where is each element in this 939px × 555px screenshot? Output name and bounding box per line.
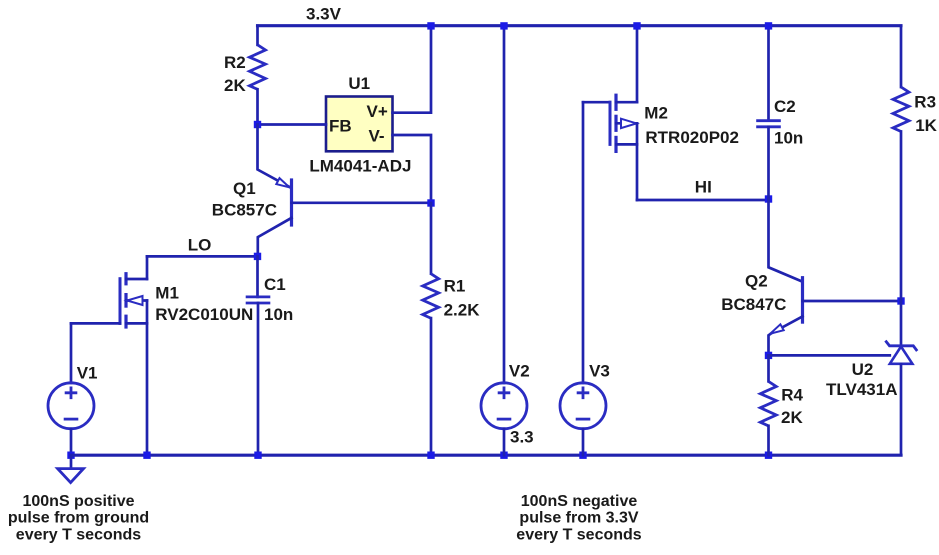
transistor M1 gate bar — [119, 279, 122, 324]
transistor Q2 emitter arrow — [770, 324, 784, 333]
wire V2 top lead — [503, 26, 506, 383]
svg-text:every T seconds: every T seconds — [16, 526, 142, 543]
node HI junction — [765, 195, 772, 202]
node FB junction — [254, 121, 261, 128]
wire C1 bottom lead — [257, 303, 260, 455]
wire R2 bottom lead — [256, 89, 259, 124]
svg-text:C1: C1 — [264, 275, 286, 294]
svg-text:100nS negative: 100nS negative — [521, 493, 638, 510]
svg-text:R3: R3 — [914, 93, 936, 112]
svg-text:R4: R4 — [781, 385, 803, 404]
svg-text:V+: V+ — [367, 102, 388, 121]
voltage source V3 — [560, 383, 606, 429]
voltage source V2 — [481, 383, 527, 429]
wire M1 bulk stub — [126, 299, 147, 302]
svg-text:LO: LO — [188, 236, 212, 255]
svg-text:Q2: Q2 — [745, 272, 768, 291]
svg-text:100nS positive: 100nS positive — [22, 493, 134, 510]
wire V- down to collector node — [393, 135, 432, 203]
svg-text:RTR020P02: RTR020P02 — [645, 128, 739, 147]
wire V1 bottom lead — [70, 429, 73, 456]
transistor Q1 emitter arrow — [276, 178, 289, 187]
svg-text:M2: M2 — [644, 104, 668, 123]
wire Q2 base to R3 node — [803, 300, 902, 303]
svg-text:2K: 2K — [224, 76, 246, 95]
wire V3 to M2 gate — [583, 101, 610, 104]
wire V3 bottom lead — [582, 429, 585, 456]
wire LO net — [147, 255, 258, 258]
wire FB to node — [258, 123, 327, 126]
svg-text:3.3: 3.3 — [510, 427, 534, 446]
wire R1 top lead — [430, 203, 433, 274]
wire Q1 base to R1 node — [292, 201, 432, 204]
wire Q1 emitter lead — [258, 125, 292, 188]
capacitor C1 — [246, 295, 271, 298]
svg-text:C2: C2 — [774, 97, 796, 116]
svg-text:FB: FB — [329, 116, 352, 135]
transistor M1 channel bars — [124, 274, 127, 284]
node rail junction M2 — [633, 22, 640, 29]
node Q2 base / R3 / U2 junction — [897, 297, 904, 304]
wire C2 bottom lead — [767, 127, 770, 199]
svg-text:10n: 10n — [264, 305, 293, 324]
svg-text:Q1: Q1 — [233, 179, 256, 198]
wire M2 bulk stub — [616, 122, 637, 125]
node rail junction at V+ drop — [427, 22, 434, 29]
svg-text:pulse from 3.3V: pulse from 3.3V — [519, 510, 638, 527]
svg-text:R1: R1 — [444, 277, 466, 296]
node V3 junction — [579, 452, 586, 459]
svg-text:pulse from ground: pulse from ground — [8, 510, 149, 527]
svg-text:V3: V3 — [589, 361, 610, 380]
wire Q2 collector lead — [769, 199, 803, 282]
wire C2 top lead — [767, 26, 770, 121]
svg-text:every T seconds: every T seconds — [516, 526, 642, 543]
resistor R2 — [250, 45, 266, 90]
svg-text:HI: HI — [695, 177, 712, 196]
node rail junction V2 — [500, 22, 507, 29]
resistor R1 — [423, 274, 439, 319]
node R1 junction — [427, 452, 434, 459]
svg-text:2.2K: 2.2K — [444, 300, 481, 319]
wire U2 cathode lead — [900, 301, 903, 345]
transistor M2 arrow — [621, 119, 637, 128]
transistor M2 gate bar — [609, 102, 612, 144]
wire M2 source stub — [616, 101, 637, 104]
node V2 junction — [500, 452, 507, 459]
node Q2 emitter junction — [765, 352, 772, 359]
svg-text:3.3V: 3.3V — [306, 5, 342, 24]
svg-text:TLV431A: TLV431A — [826, 380, 898, 399]
wire M2 drain stub — [616, 143, 637, 146]
svg-text:V-: V- — [369, 126, 385, 145]
wire M1 gate lead — [71, 322, 120, 325]
node C1 junction — [254, 452, 261, 459]
resistor R4 — [760, 381, 776, 426]
wire R3 bottom lead — [900, 132, 903, 302]
wire V3 top lead — [582, 102, 585, 383]
wire R4 bottom lead — [767, 426, 770, 455]
node ground junction — [67, 452, 74, 459]
svg-text:V2: V2 — [509, 361, 530, 380]
svg-text:1K: 1K — [915, 116, 937, 135]
svg-text:2K: 2K — [781, 408, 803, 427]
capacitor C2 — [756, 119, 781, 122]
wire C1 top lead — [256, 256, 259, 297]
svg-text:10n: 10n — [774, 129, 803, 148]
svg-text:BC857C: BC857C — [212, 201, 277, 220]
svg-text:R2: R2 — [224, 53, 246, 72]
wire top 3.3V rail — [258, 24, 902, 27]
wire ground rail — [71, 454, 901, 457]
node LO junction — [254, 253, 261, 260]
transistor M2 channel bars — [614, 95, 617, 109]
node M1 source junction — [143, 452, 150, 459]
node R4 junction — [765, 452, 772, 459]
wire R3 top lead — [900, 26, 903, 87]
wire M1 source stub — [126, 322, 147, 325]
wire V2 bottom lead — [503, 429, 506, 456]
node Q1 base / V- / R1 junction — [427, 199, 434, 206]
wire R4 top lead — [767, 355, 770, 381]
resistor R3 — [893, 87, 909, 132]
svg-text:BC847C: BC847C — [721, 295, 786, 314]
diode U2 TLV431A symbol — [885, 341, 917, 351]
wire M1 drain lead — [146, 256, 149, 279]
node rail junction C2 — [765, 22, 772, 29]
wire HI net — [637, 199, 769, 202]
svg-text:LM4041-ADJ: LM4041-ADJ — [309, 156, 411, 175]
ground symbol — [70, 455, 73, 468]
voltage source V1 — [48, 383, 94, 429]
transistor Q1 body bar — [290, 180, 293, 225]
wire R1 bottom lead — [430, 318, 433, 455]
transistor Q2 body bar — [801, 278, 804, 322]
wire M1 source lead to ground rail — [146, 301, 149, 456]
wire M2 bottom lead — [636, 123, 639, 200]
svg-text:M1: M1 — [155, 283, 179, 302]
svg-text:RV2C010UN: RV2C010UN — [155, 305, 253, 324]
svg-text:U2: U2 — [852, 360, 874, 379]
wire V+ to rail — [393, 26, 432, 113]
wire Q2 emitter lead — [769, 316, 803, 355]
wire Q2 emitter to U2 ref — [769, 354, 890, 357]
transistor M1 arrow — [127, 296, 143, 305]
wire Q1 collector lead — [258, 218, 292, 257]
wire R2 top lead — [256, 26, 259, 45]
op-amp U1 LM4041-ADJ box — [326, 97, 393, 152]
svg-text:V1: V1 — [77, 363, 98, 382]
wire M1 drain stub — [126, 278, 147, 281]
svg-text:U1: U1 — [348, 74, 370, 93]
wire M2 top lead — [636, 26, 639, 103]
wire U2 anode lead — [900, 364, 903, 455]
wire V1 top lead — [70, 323, 73, 383]
